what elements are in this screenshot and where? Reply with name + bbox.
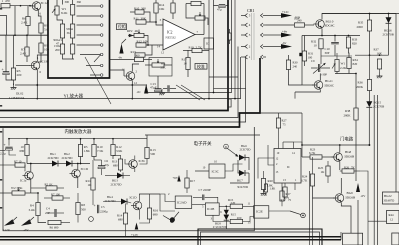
wire [209,76,238,78]
wire [229,29,231,33]
svg-text:3DG6C: 3DG6C [325,24,335,28]
junction [339,144,341,146]
resistor R16b [147,208,151,219]
svg-text:500: 500 [81,207,86,211]
wire [304,36,306,52]
power arrow -6V [21,219,32,226]
svg-text:R6 680: R6 680 [50,226,59,230]
wire [187,50,189,58]
svg-text:BG11: BG11 [325,79,333,83]
svg-text:820: 820 [353,62,358,66]
wire [263,171,265,179]
svg-text:R5 1K: R5 1K [45,182,54,186]
edge mark [0,61,2,63]
svg-text:47μF: 47μF [150,86,157,90]
wire [30,180,32,193]
svg-text:10K: 10K [159,7,165,11]
bus wire thick [0,0,228,111]
svg-text:IC1a: IC1a [20,179,27,183]
wire [312,198,314,245]
resistor R12b [111,145,115,156]
svg-text:47μ: 47μ [217,8,222,12]
resistor R20 [261,179,265,190]
svg-text:2200μ: 2200μ [100,209,108,213]
svg-text:+: + [2,68,4,72]
wire [321,67,331,69]
resistor R12 [136,43,146,47]
wire [145,45,152,55]
wire [301,36,303,86]
wire [125,204,127,214]
resistor R10 [39,43,43,53]
svg-text:2CK70B: 2CK70B [383,32,394,36]
junction [234,98,236,100]
wire [56,0,58,6]
wire [155,13,157,22]
bus wire [0,47,238,118]
wire [388,23,390,55]
wire [278,128,280,149]
svg-text:2.2K: 2.2K [340,66,347,70]
resistor R19 [192,48,202,52]
diode BG16 2CK70B [386,17,392,23]
resistor Ra1 [60,24,64,38]
wire [134,156,136,160]
connector pin 1 [245,55,248,59]
junction [348,35,350,37]
wire [62,0,64,5]
pointer line [176,85,200,100]
wire [77,178,79,188]
svg-text:2.4K: 2.4K [21,21,28,25]
wire [25,192,38,194]
wire [80,157,82,164]
resistor R16t [171,3,175,13]
wire [38,10,41,23]
wire [93,157,95,161]
wire [320,49,322,64]
probe symbol [163,216,170,220]
potentiometer W1 [55,6,59,15]
junction [30,163,32,165]
svg-text:C7 2200P: C7 2200P [199,188,212,192]
svg-text:W2 3.3K: W2 3.3K [11,186,23,190]
power arrow +12V [281,13,292,18]
wire [155,0,157,3]
terminal [100,64,103,67]
junction [301,144,303,146]
resistor R3 [11,68,15,80]
svg-text:2.7K: 2.7K [196,45,203,49]
wire [0,150,5,152]
wire [38,53,41,62]
wire [139,219,149,223]
wire [258,158,274,179]
wire [8,139,10,146]
junction [388,13,390,15]
wire [146,44,163,46]
svg-text:+6V: +6V [173,176,179,180]
op-amp IC2 [163,19,195,50]
resistor Ra3 [70,5,74,16]
svg-text:2CK70B: 2CK70B [373,104,384,108]
svg-text:-6v: -6v [118,56,123,60]
wire [144,12,150,22]
box R44 [387,211,399,224]
bus wire thick [240,58,261,128]
wire [312,157,314,174]
svg-text:680: 680 [20,149,25,153]
svg-text:470: 470 [5,0,10,3]
resistor R26 [342,169,354,173]
wire [63,54,75,59]
wire [132,64,139,72]
svg-text:内触发放大器: 内触发放大器 [65,128,92,135]
wire [140,159,148,165]
wire [77,24,101,26]
wire [302,84,314,86]
wire [112,139,114,145]
svg-text:3DG6B: 3DG6B [345,195,356,199]
svg-text:10: 10 [314,44,318,48]
wire [186,3,191,5]
wire [369,91,371,102]
connector pin 4 [245,23,248,27]
wire [26,35,28,47]
resistor R13 [135,53,145,57]
wire [77,164,79,170]
wire [113,155,121,157]
resistor R30b [286,60,290,70]
svg-text:+6v: +6v [282,29,287,33]
svg-text:30P: 30P [325,51,330,55]
wire [266,15,281,17]
wire [145,64,152,66]
wire [202,50,209,52]
wire [309,171,311,245]
svg-text:2000: 2000 [357,25,364,29]
junction [20,5,22,7]
resistor R17b [185,178,189,188]
wire [44,197,52,199]
svg-text:3DA87D: 3DA87D [384,199,395,203]
box bottom small [343,233,363,245]
resistor R37 [377,59,381,69]
wire [127,202,132,204]
gate box IC2E [254,206,269,218]
svg-text:3DG6B: 3DG6B [344,155,355,159]
svg-text:D: D [225,145,227,149]
wire [138,210,140,220]
resistor R-fb [191,1,201,5]
resistor R15b [230,219,242,223]
transistor BG9 3DG6B [335,194,344,203]
junction [36,98,38,100]
connector body [251,13,253,60]
svg-text:门电路: 门电路 [340,136,354,143]
svg-text:47: 47 [56,42,60,46]
junction [155,21,157,23]
svg-text:16K: 16K [377,51,383,55]
svg-text:2CK70D: 2CK70D [111,182,123,186]
resistor R25 [326,166,330,176]
wire [130,11,135,13]
wire [186,188,188,193]
test point [89,217,94,222]
resistor R9 [39,23,43,33]
svg-text:2CK70D: 2CK70D [240,147,252,151]
bus wire [9,138,147,140]
wire [195,34,204,36]
pointer line [181,85,205,100]
capacitor C1 2.2uF [3,71,9,73]
probe symbol [290,211,301,215]
wire [26,156,28,164]
junction [8,138,10,140]
gate box IC2B [205,203,219,215]
transistor BG8 3DG6B [334,153,343,162]
wire [321,55,352,57]
junction [213,92,215,94]
diode BG7 [239,170,245,176]
wire [348,69,350,74]
svg-text:+: + [94,204,96,208]
shield box trigger amp [3,127,254,231]
svg-text:IC2E: IC2E [256,210,263,214]
wire [24,165,27,171]
wire [245,172,249,174]
wire [263,190,265,193]
junction [36,84,38,86]
svg-text:3.4K: 3.4K [29,208,36,212]
svg-text:300: 300 [65,0,70,4]
svg-text:校准: 校准 [197,64,205,69]
shield box Y-amp [48,0,110,78]
svg-text:33K: 33K [160,66,166,70]
wire [144,36,148,46]
wire [26,56,28,62]
wire [294,142,303,149]
wire [203,4,205,35]
wire [72,38,74,44]
wire [13,35,15,68]
svg-text:75: 75 [283,123,287,127]
wire [322,156,334,158]
wire [13,80,15,85]
junction [321,35,323,37]
capacitor C10 [331,42,339,44]
wire [105,175,117,177]
resistor R29 [295,23,305,27]
wire [144,59,153,61]
wire [213,215,230,221]
power arrow +6V [177,175,180,182]
resistor R5b [78,145,82,157]
wire [294,183,296,190]
wire [62,38,64,44]
wire [92,160,94,178]
wire [339,145,341,153]
resistor R-mid 360 [135,57,144,61]
variable arrow [313,63,326,74]
svg-text:R44: R44 [389,213,395,217]
wire [208,0,210,99]
shield box bottom [198,229,322,245]
resistor R1 [1,4,10,8]
resistor R-x3 [228,99,231,107]
wire [327,161,329,166]
resistor R27 [276,118,280,128]
capacitor C5 2200u [97,205,99,213]
input jack J1 [0,16,7,36]
resistor R8 [76,203,80,215]
wire [340,170,342,172]
wire [157,76,159,89]
power arrow +6V [281,33,292,38]
svg-text:-6v: -6v [137,90,142,94]
wire [336,53,338,60]
junction [369,144,371,146]
wire [265,183,267,184]
bus wire [0,57,246,122]
wire [90,74,100,76]
wire [368,107,370,145]
junction [147,44,149,46]
edge mark [0,105,2,107]
svg-text:1.8K: 1.8K [84,149,91,153]
wire [368,220,387,222]
wire [214,0,219,6]
svg-text:280K: 280K [344,113,352,117]
junction [26,138,28,140]
svg-text:IC3C: IC3C [212,170,220,174]
wire [281,201,283,206]
wire [110,70,125,76]
wire [38,216,46,223]
wire [80,139,82,145]
enclosure W3 [149,58,172,77]
svg-text:R7 10: R7 10 [14,160,22,164]
junction [37,192,39,194]
wire [278,113,280,118]
svg-text:10K: 10K [143,40,149,44]
wire [149,194,151,208]
wire [139,194,175,202]
wire [213,6,215,93]
wire [6,75,14,80]
svg-text:IC: IC [287,165,290,169]
wire [205,18,208,25]
diode BG1 2CK70D [52,161,58,167]
svg-text:R38: R38 [345,109,351,113]
wire [0,34,48,36]
wire [164,64,172,66]
wire [302,156,310,158]
arrow tail [122,39,127,44]
connector pin 5 [245,14,248,18]
svg-text:360: 360 [77,0,82,4]
pointer line [228,149,238,157]
wire [265,192,267,196]
wire [321,29,323,36]
box far corner [392,233,399,245]
wire [268,145,274,165]
wire [134,169,136,173]
wire [193,196,202,198]
wire [93,139,95,145]
edge mark [0,8,2,10]
resistor R32 [319,39,323,49]
svg-text:R19: R19 [189,45,195,49]
transistor BG-d 3C1D [72,169,81,178]
power arrow -6V [356,183,360,192]
wire [163,88,167,90]
wire [302,35,360,37]
resistor R1b [25,145,29,156]
svg-text:680: 680 [118,218,123,222]
capacitor C7 [202,195,204,201]
svg-text:IC: IC [206,42,209,46]
svg-text:L2 BX050A: L2 BX050A [9,96,25,100]
wire [125,159,127,164]
junction [93,138,95,140]
terminal [100,44,103,47]
svg-text:R17: R17 [190,179,196,183]
svg-text:RP2: RP2 [127,29,133,33]
capacitor C-fb 47u [219,4,225,6]
diode BG8b [224,215,229,220]
junction [334,35,336,37]
svg-text:200K: 200K [356,85,364,89]
transistor IC1A [25,171,34,180]
resistor R6b [48,220,61,224]
resistor Rp10 [15,163,25,167]
wire [72,15,74,24]
transistor BG-b 3C1B [31,61,40,70]
transistor BG-e 3C1D [133,201,142,210]
wire [40,33,42,43]
svg-text:IC2AD: IC2AD [177,200,187,204]
wire [139,194,160,201]
svg-text:位相: 位相 [118,24,126,29]
svg-text:820: 820 [352,42,357,46]
wire y85 [15,84,147,86]
svg-text:3.9K: 3.9K [116,149,123,153]
svg-text:10: 10 [184,62,188,66]
wire [282,142,284,149]
wire [192,203,206,205]
resistor R17c [280,191,284,201]
resistor R15a [230,204,242,208]
wire [295,90,320,93]
wire [340,178,342,194]
svg-text:C9: C9 [311,59,315,63]
junction [36,84,38,86]
wire [266,24,294,26]
diode BG15 2CK70B [366,101,372,107]
transistor BG-a 3C1A [32,2,41,11]
resistor R-x2 [228,33,231,40]
svg-text:360: 360 [141,7,146,11]
wire [373,95,375,245]
junction [369,54,371,56]
capacitor C6 47u [98,165,105,167]
wire [243,217,254,222]
wire [170,88,176,90]
wire [172,13,174,19]
capacitor C4 [54,209,56,217]
junction [112,138,114,140]
